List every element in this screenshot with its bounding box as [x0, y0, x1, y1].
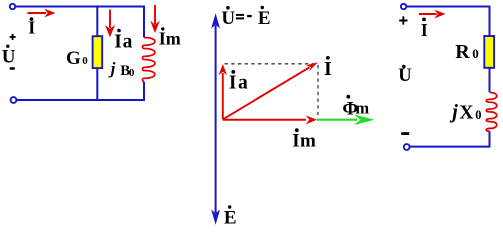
label Ia (phasor)	[229, 70, 248, 94]
label Ia (left circuit)	[114, 29, 132, 53]
svg-text:m: m	[166, 29, 181, 49]
terminal bottom-left	[11, 97, 17, 103]
svg-text:U: U	[398, 66, 411, 86]
arrow current Im (left circuit)	[150, 5, 160, 33]
phasor axis arrowhead down	[211, 209, 220, 224]
terminal top-left	[10, 4, 15, 9]
svg-text:I: I	[229, 73, 237, 94]
phasor axis arrowhead up	[211, 13, 220, 28]
label G0	[66, 48, 88, 69]
svg-text:E: E	[258, 8, 271, 29]
phasor axis (blue vertical line)	[215, 25, 217, 213]
label R0	[455, 41, 479, 63]
wire jB0 branch upper	[143, 6, 145, 38]
svg-text:0: 0	[82, 55, 88, 67]
svg-text:R: R	[455, 41, 470, 63]
svg-text:I: I	[159, 29, 166, 49]
label minus (right circuit)	[401, 132, 409, 135]
vector Phi-m (green)	[317, 114, 375, 125]
wire top (left circuit)	[15, 6, 145, 8]
resistor R0	[484, 36, 494, 68]
label I-dot (left circuit)	[28, 17, 35, 37]
label Phi-m (phasor)	[342, 95, 369, 120]
dashed projection vertical	[317, 65, 319, 115]
wire between R0 and X0	[489, 68, 491, 93]
label I (phasor)	[324, 56, 332, 80]
wire top (right circuit)	[407, 6, 491, 8]
label jX0	[449, 101, 481, 124]
svg-text:I: I	[324, 58, 332, 80]
label U-dot (right circuit)	[398, 65, 411, 86]
svg-text:0: 0	[472, 46, 479, 61]
arrow current I (right circuit)	[419, 10, 446, 19]
svg-text:0: 0	[129, 67, 135, 79]
label U-dot (left circuit)	[2, 45, 16, 68]
resistor G0	[93, 36, 103, 68]
svg-text:U: U	[221, 8, 235, 29]
wire bottom (left circuit)	[17, 99, 145, 101]
svg-text:I: I	[292, 130, 299, 151]
label minus (left circuit)	[10, 67, 15, 70]
vector Ia	[219, 64, 227, 119]
wire G0 branch upper	[96, 6, 98, 37]
label Im (left circuit)	[159, 27, 181, 48]
wire bottom (right circuit)	[410, 146, 491, 148]
svg-text:a: a	[123, 32, 133, 53]
svg-text:X: X	[459, 102, 473, 123]
svg-text:E: E	[224, 208, 237, 229]
wire right lower (right circuit)	[489, 132, 491, 148]
label I-dot (right circuit)	[421, 18, 428, 40]
svg-text:m: m	[300, 130, 316, 151]
arrow current Ia (left circuit)	[105, 10, 115, 38]
label E-dot (phasor bottom)	[224, 205, 237, 228]
dashed projection horizontal	[225, 63, 314, 65]
svg-text:0: 0	[475, 108, 481, 122]
wire G0 branch lower	[96, 69, 98, 102]
wire right upper (right circuit)	[489, 6, 491, 36]
svg-text:a: a	[238, 73, 248, 94]
terminal top-left (right circuit)	[401, 4, 406, 9]
arrow current I (left circuit)	[28, 9, 56, 18]
terminal bottom-left (right circuit)	[404, 144, 410, 150]
label plus (left circuit)	[10, 34, 16, 40]
label U-dot = -E-dot	[221, 6, 270, 29]
inductor jB0	[143, 38, 155, 82]
svg-text:G: G	[66, 48, 81, 69]
svg-text:m: m	[355, 98, 369, 117]
vector Im	[223, 115, 317, 124]
label Im (phasor)	[292, 128, 316, 151]
svg-text:I: I	[114, 32, 122, 53]
inductor jX0	[486, 93, 497, 132]
svg-text:U: U	[2, 47, 16, 68]
vector I	[223, 62, 318, 119]
svg-text:I: I	[421, 20, 428, 40]
wire jB0 branch lower	[143, 82, 145, 102]
label plus (right circuit)	[399, 16, 407, 24]
label jB0	[108, 59, 135, 79]
